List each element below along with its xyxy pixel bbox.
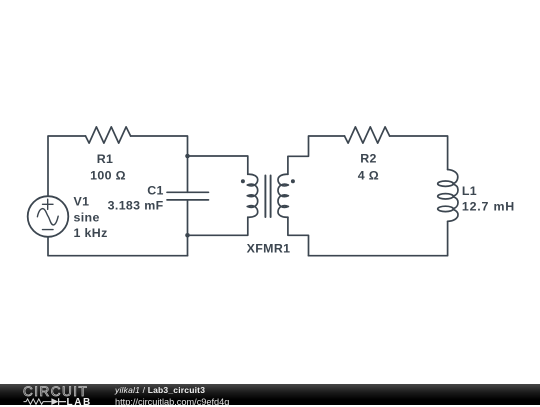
label R2: [360, 152, 377, 166]
label L1: [462, 184, 477, 198]
label R1 value 100 Ω: [90, 168, 126, 182]
svg-text:LAB: LAB: [67, 398, 92, 407]
svg-text:1 kHz: 1 kHz: [74, 226, 108, 240]
wire top-left from V1 to R1: [48, 136, 86, 196]
label V1: [74, 195, 90, 209]
svg-text:3.183 mF: 3.183 mF: [108, 198, 164, 212]
label R1: [97, 152, 114, 166]
voltage source V1: [28, 196, 69, 237]
wire R1 to node A: [131, 136, 188, 156]
svg-text:sine: sine: [74, 210, 100, 224]
transformer XFMR1 core: [265, 176, 270, 218]
wire XFMR1 secondary bottom to bottom-right rail: [288, 217, 309, 256]
label V1 value 1 kHz: [74, 226, 108, 240]
wire node A down to C1: [187, 156, 189, 192]
footer url: [115, 397, 229, 407]
svg-text:12.7 mH: 12.7 mH: [462, 199, 515, 213]
wire XFMR1 secondary top to top-right rail: [288, 136, 345, 174]
svg-text:R1: R1: [97, 152, 114, 166]
resistor R2: [345, 127, 390, 143]
inductor L1: [438, 170, 458, 222]
svg-text:C1: C1: [147, 183, 164, 197]
transformer XFMR1 primary winding: [247, 174, 257, 217]
svg-text:R2: R2: [360, 152, 377, 166]
node B junction dot: [185, 233, 190, 238]
label L1 value 12.7 mH: [462, 199, 515, 213]
capacitor C1: [167, 192, 209, 200]
transformer XFMR1 secondary winding: [278, 174, 288, 217]
resistor R1: [86, 127, 131, 143]
svg-text:L1: L1: [462, 184, 477, 198]
node A junction dot: [185, 154, 190, 159]
footer title: [115, 386, 205, 396]
footer bar: [0, 384, 540, 405]
wire node B to bottom rail: [187, 235, 189, 255]
transformer XFMR1 primary phase dot: [241, 179, 245, 183]
svg-text:V1: V1: [74, 195, 90, 209]
label XFMR1: [247, 241, 291, 255]
svg-text:XFMR1: XFMR1: [247, 241, 291, 255]
label C1 value 3.183 mF: [108, 198, 164, 212]
wire C1 to node B: [187, 200, 189, 235]
wire node A to XFMR1 primary top: [188, 156, 248, 174]
transformer XFMR1 secondary phase dot: [291, 179, 295, 183]
CircuitLab logo: [23, 384, 103, 406]
wire L1 to bottom-right rail: [309, 221, 448, 255]
wire R2 to L1: [390, 136, 448, 170]
svg-text:100 Ω: 100 Ω: [90, 168, 126, 182]
label R2 value 4 Ω: [358, 168, 379, 182]
wire XFMR1 primary bottom to node B: [188, 217, 248, 235]
wire bottom-left rail: [48, 237, 188, 256]
label C1: [147, 183, 164, 197]
svg-text:4 Ω: 4 Ω: [358, 168, 379, 182]
label V1 type sine: [74, 210, 100, 224]
